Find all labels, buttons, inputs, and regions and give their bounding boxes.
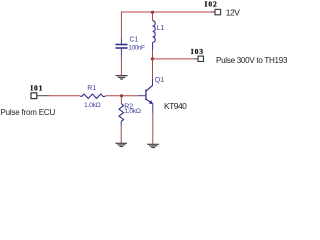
svg-text:12V: 12V: [226, 7, 240, 17]
wire R2 lower lead: [120, 122, 122, 143]
wire C1 upper lead: [120, 12, 122, 44]
svg-text:R1: R1: [87, 85, 96, 92]
wire top rail 12V: [121, 11, 215, 13]
wire emitter lead: [152, 104, 154, 144]
node junction base/R2: [120, 94, 123, 97]
svg-text:I01: I01: [30, 84, 43, 93]
wire to I03: [153, 58, 199, 60]
svg-text:Q1: Q1: [155, 77, 164, 84]
svg-text:1.0kΩ: 1.0kΩ: [124, 108, 141, 115]
svg-text:Pulse 300V to TH193: Pulse 300V to TH193: [216, 56, 288, 65]
transistor Q1: [145, 77, 164, 104]
wire I01 to R1: [49, 95, 80, 97]
svg-text:KT940: KT940: [164, 101, 187, 111]
svg-text:100nF: 100nF: [128, 45, 145, 52]
resistor R1: [80, 85, 106, 109]
ground under emitter: [147, 144, 159, 148]
ground under C1: [116, 75, 128, 80]
svg-text:I03: I03: [191, 47, 204, 56]
ground under R2: [116, 143, 128, 147]
capacitor C1: [116, 36, 145, 51]
svg-text:L1: L1: [157, 25, 165, 32]
node junction collector/I03: [151, 57, 154, 60]
wire I01 stub: [37, 95, 49, 97]
terminal I03: [191, 47, 204, 61]
wire R2 upper lead: [120, 96, 122, 104]
svg-text:Pulse from ECU: Pulse from ECU: [1, 108, 56, 117]
wire L1 to collector node: [152, 50, 154, 59]
wire C1 lower lead: [120, 49, 122, 75]
svg-text:C1: C1: [130, 36, 139, 43]
svg-text:1.0kΩ: 1.0kΩ: [84, 102, 101, 109]
resistor R2: [119, 104, 141, 122]
inductor L1: [153, 12, 165, 50]
wire R1 to base: [106, 95, 146, 97]
terminal I01: [30, 84, 43, 99]
svg-text:I02: I02: [205, 0, 218, 9]
terminal I02: [205, 0, 221, 15]
node junction on top rail: [151, 11, 154, 14]
wire collector lead: [152, 59, 154, 86]
